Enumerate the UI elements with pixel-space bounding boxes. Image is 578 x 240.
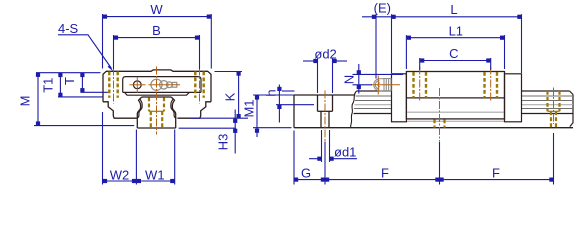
dimension C — [420, 58, 491, 70]
svg-text:W2: W2 — [110, 168, 130, 183]
hole centerline — [324, 91, 326, 142]
dimension (E) — [362, 14, 522, 78]
svg-text:C: C — [449, 46, 458, 61]
svg-text:T: T — [62, 77, 77, 85]
dimension M1 — [253, 95, 295, 137]
rail hole hidden lines (left view) — [149, 98, 164, 128]
seal / skirt inner contour around rail, left — [137, 99, 143, 118]
svg-text:F: F — [492, 166, 500, 181]
S screw hole circle on plate face — [133, 81, 141, 89]
dimension T — [81, 73, 109, 93]
dimension L1 — [406, 35, 504, 69]
svg-text:L1: L1 — [449, 23, 463, 38]
svg-text:L: L — [450, 2, 457, 17]
svg-text:ød1: ød1 — [334, 144, 356, 159]
svg-text:K: K — [223, 92, 238, 101]
rail sectioned end (left part) — [294, 95, 573, 128]
dimension B — [114, 35, 200, 69]
S hole crosshair centerlines — [130, 77, 146, 93]
dimension h — [276, 85, 314, 123]
dimension H3 — [179, 110, 236, 154]
dimension N — [353, 64, 404, 94]
rail cross-section — [137, 97, 175, 128]
svg-text:N: N — [342, 75, 357, 84]
svg-text:F: F — [381, 166, 389, 181]
nipple vertical centerline — [377, 76, 379, 95]
dimension K — [190, 72, 248, 119]
dimension T1 — [58, 73, 103, 97]
svg-text:ød2: ød2 — [314, 46, 336, 61]
grease nipple (front view, gray) — [151, 79, 177, 90]
rail hole right centerline — [553, 88, 555, 125]
rail hole under block (hidden) — [435, 120, 445, 128]
4-S mounting hole hidden lines, right ear — [195, 72, 203, 98]
svg-text:(E): (E) — [374, 0, 391, 15]
right end cap — [505, 74, 522, 122]
block body outline (end view) — [103, 70, 211, 118]
rail groove lines (gray) — [354, 96, 573, 109]
dimension M — [34, 73, 134, 126]
end seal plate outline — [123, 77, 201, 96]
break line — [351, 91, 357, 128]
nipple horizontal centerline — [149, 84, 181, 86]
nipple centerline — [371, 84, 400, 86]
left end cap — [392, 74, 407, 122]
svg-text:T1: T1 — [41, 78, 56, 93]
svg-text:G: G — [301, 166, 311, 181]
rail profile lines (side view) — [354, 91, 574, 127]
grease nipple (side view, gray) — [374, 79, 391, 92]
dimension ød1 — [309, 130, 357, 162]
svg-text:H3: H3 — [216, 134, 231, 151]
svg-text:h: h — [264, 89, 279, 96]
block body (side view) — [406, 72, 504, 119]
svg-text:B: B — [152, 23, 161, 38]
svg-text:M1: M1 — [242, 99, 257, 117]
block vertical centerline — [156, 67, 158, 135]
dimensions W2 / W1 — [103, 112, 175, 185]
bottom dimensions G / F / F — [294, 131, 554, 185]
dimension W — [103, 14, 212, 69]
svg-text:M: M — [18, 96, 33, 107]
svg-text:4-S: 4-S — [58, 21, 79, 36]
S-hole centerlines (orange) — [114, 68, 200, 104]
rail hole right (hidden counterbore) — [548, 91, 560, 128]
block hole centerlines — [420, 67, 491, 102]
dimension L — [521, 14, 523, 73]
rail hole centerline (middle) — [439, 88, 441, 141]
seal / skirt inner contour around rail, right — [171, 99, 177, 118]
4-S mounting hole hidden lines, left ear — [109, 72, 117, 98]
counterbore hole in rail end (ød2/ød1) — [318, 95, 333, 128]
block mounting holes (hidden, side view) — [414, 72, 498, 98]
rail shoulder lines (light gray) — [355, 105, 574, 122]
svg-text:W: W — [150, 2, 163, 17]
dimension ød2 — [303, 59, 347, 94]
svg-text:W1: W1 — [145, 168, 165, 183]
